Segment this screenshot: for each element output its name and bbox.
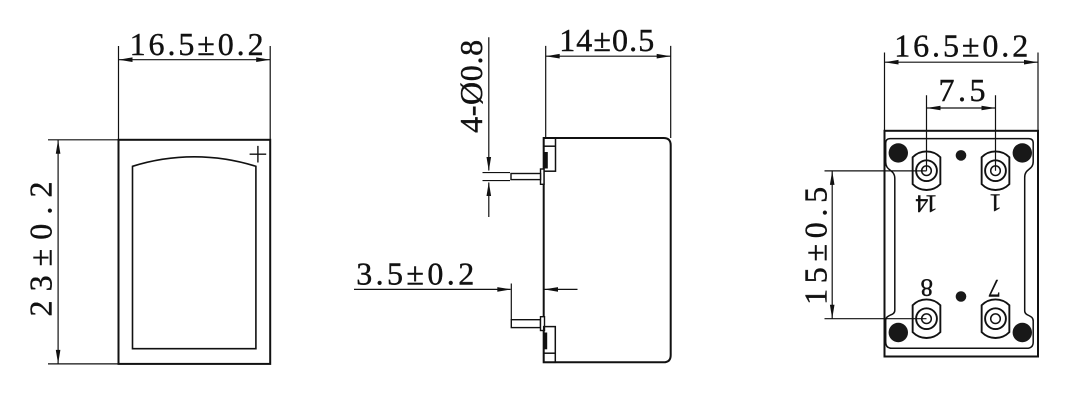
corner dot top-right bbox=[1013, 143, 1032, 162]
corner rivet dots bbox=[889, 143, 1032, 342]
svg-text:7.5: 7.5 bbox=[939, 72, 986, 108]
dia dim vertical line upper bbox=[488, 37, 490, 170]
dia dim vertical line lower bbox=[488, 183, 490, 218]
bottom pin flange bbox=[541, 317, 545, 331]
bottom step inner line bbox=[544, 352, 556, 354]
arrowhead 7.5 right bbox=[982, 106, 996, 111]
pin 14 terminal bbox=[913, 151, 941, 190]
arrowhead left of 14 dim bbox=[546, 54, 560, 59]
dim 23±0.2 dimension line bbox=[57, 140, 59, 364]
side view body outline bbox=[544, 138, 671, 362]
arrowhead 7.5 left bbox=[927, 106, 941, 111]
pin 1 terminal bbox=[982, 151, 1010, 190]
bottom pin bbox=[511, 320, 540, 328]
dim 15 dimension line bbox=[831, 171, 833, 319]
arrowhead left of 16.5 dim bbox=[119, 57, 133, 62]
svg-text:1: 1 bbox=[989, 189, 1002, 216]
cross mark top-right bbox=[250, 146, 267, 163]
bottom view outer rectangle bbox=[885, 131, 1039, 357]
bottom-left step rect bbox=[544, 327, 556, 363]
front view outer rectangle bbox=[119, 140, 271, 364]
dim 16.5 right ext lines bbox=[885, 53, 1039, 131]
dim 3.5 leader line left bbox=[354, 288, 511, 290]
svg-text:8: 8 bbox=[921, 274, 934, 301]
arrowhead 3.5 pointing left bbox=[544, 287, 558, 292]
svg-text:14: 14 bbox=[915, 189, 938, 216]
dim 3.5 right shaft bbox=[545, 288, 578, 290]
dim 14±0.5 dimension line bbox=[546, 55, 671, 57]
dim 14±0.5 extension lines bbox=[546, 46, 671, 138]
seal hatch top bbox=[544, 152, 548, 169]
corner dot bottom-right bbox=[1013, 323, 1032, 342]
dim 23±0.2 extension lines bbox=[48, 140, 119, 364]
dim 16.5±0.2 dimension line bbox=[119, 59, 271, 61]
top-left header step rect bbox=[544, 138, 556, 171]
svg-text:7: 7 bbox=[988, 274, 1001, 301]
arrowhead down (pin dia top) bbox=[487, 157, 492, 171]
top pin bbox=[511, 174, 541, 180]
top-left header inner line bbox=[544, 145, 556, 147]
seal hatch bottom bbox=[545, 333, 548, 350]
arrowhead up (pin dia bottom) bbox=[487, 182, 492, 196]
arrowhead right of 16.5 dim bbox=[256, 57, 270, 62]
svg-text:4-Ø0.8: 4-Ø0.8 bbox=[453, 40, 489, 133]
svg-text:16.5±0.2: 16.5±0.2 bbox=[130, 26, 264, 62]
middle dot bottom bbox=[956, 291, 967, 302]
dim 7.5 ext lines into pins bbox=[927, 95, 996, 170]
dim 3.5 extension line bbox=[510, 284, 512, 321]
corner dot top-left bbox=[889, 143, 908, 162]
svg-text:16.5±0.2: 16.5±0.2 bbox=[894, 28, 1028, 64]
arrowhead 15 top bbox=[830, 171, 835, 185]
pin diameter ticks bbox=[483, 173, 511, 181]
arrowhead left 16.5 right view bbox=[885, 60, 899, 65]
svg-text:14±0.5: 14±0.5 bbox=[559, 22, 654, 58]
bottom view inner contour bbox=[886, 139, 1033, 349]
dim 16.5 right dimension line bbox=[885, 61, 1039, 63]
arrowhead bottom of 23 dim bbox=[56, 350, 61, 364]
arrowhead 15 bottom bbox=[830, 305, 835, 319]
pin 7 terminal bbox=[982, 299, 1010, 338]
pin 8 terminal bbox=[913, 299, 941, 338]
arrowhead 3.5 pointing right bbox=[497, 287, 511, 292]
dim 15 ext lines bbox=[825, 171, 927, 319]
dim 7.5 dimension line bbox=[927, 107, 996, 109]
arrowhead right of 14 dim bbox=[657, 54, 671, 59]
arrowhead top of 23 dim bbox=[56, 140, 61, 154]
front view inner window (arched top) bbox=[133, 157, 256, 349]
middle dot top bbox=[956, 150, 967, 161]
dim 16.5±0.2 extension lines bbox=[119, 46, 271, 140]
top pin flange bbox=[541, 169, 545, 184]
arrowhead right 16.5 right view bbox=[1024, 60, 1038, 65]
corner dot bottom-left bbox=[889, 323, 908, 342]
